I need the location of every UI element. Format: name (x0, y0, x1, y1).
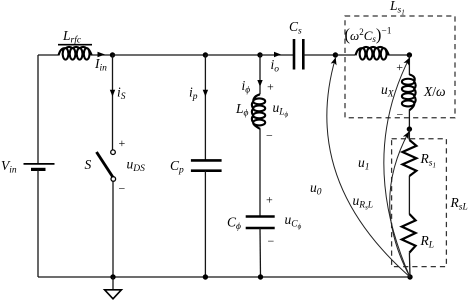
node B (Cp top) (203, 52, 208, 57)
node I (Cp bottom) (203, 274, 208, 279)
svg-text:+: + (267, 80, 274, 94)
inductor L_rfc (58, 28, 92, 60)
current arrow i_S (110, 85, 126, 103)
wire top-left horizontal (38, 54, 59, 56)
wire node E to X/w coil (408, 55, 410, 75)
svg-text:Lϕ: Lϕ (235, 101, 249, 119)
svg-text:Ls1: Ls1 (389, 0, 405, 17)
current arrow i_p (189, 85, 208, 103)
inductor (w^2 Cs)^-1 (345, 25, 392, 60)
svg-text:RsL: RsL (450, 195, 468, 213)
capacitor C_p (170, 158, 222, 176)
wire X/w to node F (408, 110, 410, 130)
switch S (85, 150, 116, 181)
ground (105, 277, 122, 299)
wire Cs to node D (303, 54, 335, 56)
wire Rs1 to RL (408, 176, 410, 214)
wire node A to node B (113, 54, 206, 56)
wire node B down to Cp (204, 55, 206, 160)
inductor L_phi (235, 94, 265, 129)
svg-text:io: io (271, 57, 280, 75)
svg-text:ip: ip (189, 85, 198, 103)
node E (u1 node) (407, 52, 412, 57)
svg-text:iS: iS (117, 85, 126, 103)
left rail wire top (37, 55, 39, 164)
svg-text:−: − (397, 108, 404, 122)
label u_Lphi plus sign (267, 80, 274, 94)
svg-text:RL: RL (420, 233, 435, 251)
label u_X plus sign (396, 60, 403, 74)
label u_DS plus sign (119, 136, 126, 150)
svg-text:Iin: Iin (94, 56, 107, 74)
svg-text:S: S (85, 157, 92, 172)
svg-text:uRsL: uRsL (353, 193, 374, 212)
svg-text:Rs1: Rs1 (420, 151, 436, 170)
label u_DS minus sign (119, 182, 126, 196)
dashed box Ls1 (345, 0, 455, 118)
dashed box RsL (392, 139, 468, 267)
label u_Cphi (285, 212, 302, 231)
svg-text:−: − (268, 234, 275, 248)
current arrow I_in (94, 52, 107, 74)
resistor Rs1 (403, 140, 436, 176)
label u_Lphi (273, 100, 289, 119)
node G (bottom right) (407, 274, 412, 279)
node A (drain node) (110, 52, 115, 57)
wire Lphi to Cphi (259, 128, 261, 216)
wire node C down to Lphi (259, 55, 261, 94)
label u_X minus sign (397, 108, 404, 122)
resistor RL (402, 214, 434, 253)
svg-text:X/ω: X/ω (423, 84, 446, 99)
svg-text:Cp: Cp (170, 158, 184, 176)
svg-text:−: − (119, 182, 126, 196)
node H (ground junction) (110, 274, 115, 279)
capacitor C_phi (227, 215, 275, 233)
wire Cphi to bottom node J (259, 228, 262, 277)
svg-text:u0: u0 (310, 180, 322, 198)
wire node D into Ls1 box (335, 54, 355, 56)
label u_Cphi plus sign (266, 193, 273, 207)
wire node B to node C (205, 54, 260, 56)
node D (u0 node) (333, 52, 338, 57)
svg-text:uCϕ: uCϕ (285, 212, 302, 231)
svg-text:uLϕ: uLϕ (273, 100, 289, 119)
svg-text:Cϕ: Cϕ (227, 215, 241, 233)
svg-text:uDS: uDS (127, 157, 146, 175)
svg-text:Cs: Cs (289, 19, 302, 37)
svg-text:iϕ: iϕ (242, 78, 251, 96)
current arrow i_o (271, 52, 282, 75)
wire Cp to bottom node I (204, 171, 206, 277)
svg-text:+: + (266, 193, 273, 207)
wire L_rfc to node A (92, 54, 113, 56)
svg-text:−: − (266, 129, 273, 143)
bottom rail wire (38, 276, 410, 278)
svg-text:(ω2Cs)−1: (ω2Cs)−1 (345, 25, 392, 44)
svg-text:+: + (119, 136, 126, 150)
label u_Lphi minus sign (266, 129, 273, 143)
inductor X/w (402, 75, 446, 111)
voltage arrow u_RsL (353, 132, 411, 277)
wire node A down to switch (112, 55, 114, 150)
svg-text:+: + (396, 60, 403, 74)
left rail wire bottom (37, 170, 39, 278)
current arrow i_phi (242, 78, 263, 96)
node J (Cphi bottom) (258, 274, 263, 279)
svg-text:Vin: Vin (1, 158, 17, 176)
wire RL to bottom node G (408, 253, 411, 277)
label u_Cphi minus sign (268, 234, 275, 248)
voltage arrow u_1 (358, 58, 410, 277)
label u_DS (127, 157, 146, 175)
wire to node E (389, 54, 409, 56)
label u_X (381, 82, 395, 100)
node F (uRsL node) (407, 126, 412, 131)
battery V_in (1, 158, 55, 176)
wire node F to Rs1 (408, 129, 410, 140)
wire switch to bottom node (112, 181, 114, 277)
svg-text:Lrfc: Lrfc (62, 28, 82, 46)
wire node C to Cs (260, 54, 294, 56)
capacitor C_s (289, 19, 303, 70)
node C (Lphi top) (257, 52, 262, 57)
svg-text:u1: u1 (358, 155, 370, 173)
svg-text:uX: uX (381, 82, 395, 100)
voltage arrow u_0 (310, 58, 410, 277)
